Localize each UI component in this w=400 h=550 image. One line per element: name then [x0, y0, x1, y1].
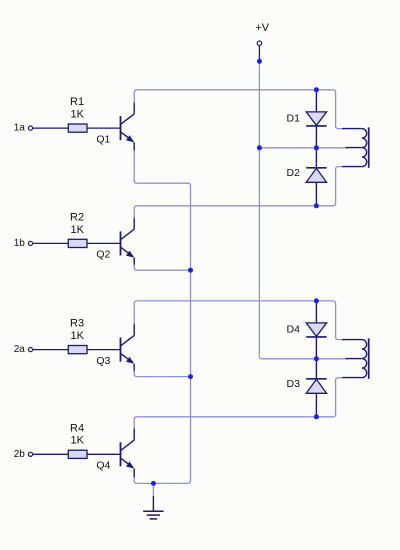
- transistor Q2: [120, 231, 122, 255]
- wire Q2 collector to bottom rail (winding 1 bottom / D2): [134, 167, 344, 219]
- svg-text:1K: 1K: [71, 224, 85, 236]
- svg-text:R2: R2: [70, 211, 84, 223]
- diode D2: [315, 148, 317, 206]
- svg-text:R3: R3: [70, 318, 84, 330]
- svg-text:1b: 1b: [14, 238, 26, 249]
- svg-text:+V: +V: [255, 22, 269, 34]
- junction D1-D2 / centre tap: [314, 145, 319, 150]
- wire R1 to Q1 base: [87, 127, 120, 129]
- junction Q3 emitter / bus: [188, 374, 193, 379]
- svg-text:Q2: Q2: [96, 249, 110, 261]
- wire Q1 collector to top rail (winding 1 top / D1): [134, 90, 344, 129]
- svg-text:Q1: Q1: [96, 133, 110, 145]
- svg-text:1K: 1K: [71, 435, 85, 447]
- junction +V pin / bus: [257, 59, 262, 64]
- resistor R2: [68, 239, 87, 247]
- input terminal 2b: [28, 452, 32, 456]
- junction +V bus / winding 1 centre tap: [257, 145, 262, 150]
- diode D3: [315, 359, 317, 417]
- svg-text:1K: 1K: [71, 330, 85, 342]
- winding L1 (motor coil 1, centre tapped): [342, 128, 362, 130]
- junction top rail 2 / D4 anode: [314, 298, 319, 303]
- wire 1a to R1: [33, 127, 69, 129]
- wire Q2 emitter to bus: [134, 264, 190, 270]
- resistor R4: [68, 450, 87, 458]
- junction bottom rail 2 / D3 anode: [314, 414, 319, 419]
- svg-text:1a: 1a: [14, 123, 26, 134]
- wire R4 to Q4 base: [87, 453, 120, 455]
- svg-text:R1: R1: [70, 96, 84, 108]
- transistor Q3: [120, 338, 122, 362]
- wire Q4 collector to winding 2 bottom rail / D3: [134, 378, 344, 429]
- svg-text:R4: R4: [70, 422, 84, 434]
- diode D1: [315, 90, 317, 148]
- wire Q1 emitter to common emitter bus and ground rail: [134, 150, 190, 483]
- svg-text:D3: D3: [287, 378, 301, 390]
- wire +V to winding 1 centre tap: [259, 147, 348, 149]
- input terminal 2a: [28, 348, 32, 352]
- resistor R3: [68, 346, 87, 354]
- junction emitter rail / ground: [151, 481, 156, 486]
- diode D4: [315, 301, 317, 359]
- svg-text:2a: 2a: [14, 344, 26, 355]
- input terminal 1a: [28, 126, 32, 130]
- wire +V bus down to winding 2 centre tap: [259, 61, 348, 359]
- input terminal 1b: [28, 241, 32, 245]
- wire Q3 collector to winding 2 top rail / D4: [134, 301, 344, 340]
- junction bottom rail / D2 anode: [314, 203, 319, 208]
- wire 1b to R2: [33, 242, 69, 244]
- transistor Q1: [120, 116, 122, 140]
- transistor Q4: [120, 442, 122, 466]
- svg-text:Q4: Q4: [96, 460, 110, 472]
- svg-text:D4: D4: [287, 323, 301, 335]
- svg-text:D1: D1: [287, 112, 301, 124]
- wire 2a to R3: [33, 349, 69, 351]
- resistor R1: [68, 124, 87, 132]
- wire Q3 emitter to bus: [134, 371, 190, 377]
- ground: [152, 483, 154, 498]
- wire R2 to Q2 base: [87, 242, 120, 244]
- svg-text:1K: 1K: [71, 109, 85, 121]
- wire R3 to Q3 base: [87, 349, 120, 351]
- power terminal +V: [257, 41, 261, 45]
- svg-text:2b: 2b: [14, 449, 26, 460]
- wire 2b to R4: [33, 453, 69, 455]
- winding L2 (motor coil 2, centre tapped): [342, 339, 362, 341]
- svg-text:Q3: Q3: [96, 355, 110, 367]
- junction top rail / D1 anode: [314, 87, 319, 92]
- junction Q2 emitter / bus: [188, 268, 193, 273]
- junction D4-D3 / centre tap 2: [314, 356, 319, 361]
- svg-text:D2: D2: [287, 167, 301, 179]
